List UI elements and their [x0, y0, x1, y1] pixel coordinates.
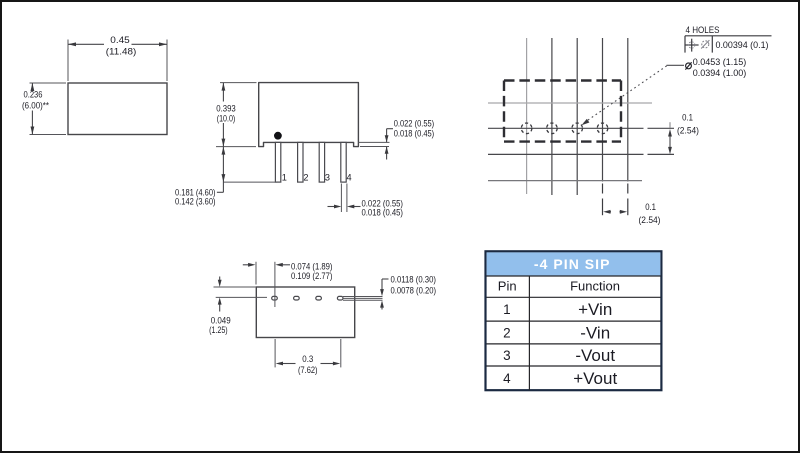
grid dark vertical lines	[552, 38, 628, 195]
table header text -4 PIN SIP	[534, 256, 611, 272]
row 4	[503, 369, 617, 388]
dim text 0.0118 / 0.0078	[391, 275, 437, 296]
row 3	[503, 346, 615, 365]
svg-text:0.1: 0.1	[645, 202, 656, 212]
svg-text:0.049: 0.049	[211, 316, 231, 326]
tolerance value text	[716, 39, 769, 50]
svg-text:0.3: 0.3	[302, 354, 313, 364]
4 HOLES label	[686, 24, 720, 35]
dimension pin width arrows	[328, 206, 361, 208]
dim text 0.074 / 0.109	[291, 261, 333, 281]
pin 1 cross-section	[272, 296, 278, 300]
table grid lines	[487, 276, 661, 390]
arrowheads standoff dim	[385, 135, 389, 154]
dimension line 0.45	[68, 43, 167, 45]
position symbol	[685, 39, 699, 52]
pin 4 cross-section	[337, 296, 343, 300]
dim text 0.45 (11.48)	[106, 35, 137, 57]
pin 2 cross-section	[294, 296, 300, 300]
svg-text:0.1: 0.1	[682, 113, 693, 123]
svg-text:(1.25): (1.25)	[209, 325, 228, 335]
row pitch dimension right 0.1 (2.54)	[669, 122, 671, 147]
table outer fill	[486, 251, 662, 390]
svg-text:4: 4	[503, 371, 511, 386]
pin thickness extension lines right	[343, 297, 383, 301]
front view body outline with standoff tabs	[259, 83, 359, 147]
svg-text:(6.00)**: (6.00)**	[22, 101, 49, 111]
arrowheads body height dim	[222, 83, 226, 183]
extension lines for 0.45 width dim	[68, 40, 167, 82]
svg-text:2: 2	[503, 325, 511, 340]
svg-text:1: 1	[282, 173, 287, 183]
diameter symbol (dashed)	[701, 40, 709, 48]
pin number labels	[282, 173, 352, 183]
table header band	[487, 252, 661, 275]
svg-text:+Vout: +Vout	[573, 369, 617, 388]
extension lines standoff right	[359, 142, 390, 146]
dim text 0.049 (1.25)	[209, 316, 231, 336]
bottom view body outline	[256, 287, 354, 338]
svg-text:-4 PIN SIP: -4 PIN SIP	[534, 256, 611, 272]
dashed lower extensions of hole-pitch lines	[603, 184, 628, 216]
svg-text:(7.62): (7.62)	[298, 365, 318, 375]
pin 2 lead	[298, 142, 303, 182]
svg-text:2: 2	[303, 173, 308, 183]
hole 1	[521, 123, 532, 134]
svg-text:0.074 (1.89): 0.074 (1.89)	[291, 261, 333, 271]
svg-text:0.236: 0.236	[24, 90, 43, 100]
pin 3 cross-section	[316, 296, 322, 300]
svg-text:0.022 (0.55): 0.022 (0.55)	[394, 119, 435, 129]
svg-text:0.142 (3.60): 0.142 (3.60)	[175, 197, 216, 207]
extension lines pin span	[275, 339, 341, 367]
svg-text:-Vin: -Vin	[580, 324, 610, 343]
pin offset dimension arrows	[243, 264, 290, 266]
pin 3 lead	[319, 142, 324, 182]
svg-text:3: 3	[325, 173, 330, 183]
svg-text:0.393: 0.393	[216, 104, 236, 114]
pin span dimension 0.3	[283, 363, 333, 365]
dim text 0.236 (6.00)**	[22, 90, 49, 111]
hole 3	[572, 123, 583, 134]
svg-text:0.018 (0.45): 0.018 (0.45)	[394, 128, 435, 138]
pin 4 lead	[341, 142, 346, 182]
svg-text:(2.54): (2.54)	[639, 215, 661, 225]
svg-text:0.0118 (0.30): 0.0118 (0.30)	[391, 275, 437, 285]
dim text pin width	[362, 198, 404, 217]
grid light vertical line	[526, 38, 528, 194]
side view body outline	[68, 83, 167, 135]
grid horizontal lines	[488, 103, 674, 181]
svg-text:Pin: Pin	[498, 278, 517, 293]
dim text 0.3 (7.62)	[298, 354, 318, 375]
svg-text:0.0453 (1.15): 0.0453 (1.15)	[693, 56, 747, 67]
svg-text:3: 3	[503, 348, 511, 363]
pin inset dimension vertical	[219, 277, 221, 312]
hole 2	[547, 123, 558, 134]
svg-text:4 HOLES: 4 HOLES	[686, 24, 720, 35]
dim text 0.393 (10.0)	[216, 104, 236, 124]
svg-text:(11.48): (11.48)	[106, 47, 137, 57]
svg-text:0.0394 (1.00): 0.0394 (1.00)	[693, 67, 747, 78]
hole diameter callout	[685, 62, 691, 69]
dimension line 0.393 / 0.181 vertical	[217, 83, 224, 193]
svg-text:(10.0): (10.0)	[217, 114, 236, 124]
leader dotted line to hole callout	[582, 65, 685, 125]
dimension standoff height	[387, 129, 393, 160]
extension lines left of front view	[216, 83, 277, 183]
extension lines pin offset dim	[256, 262, 275, 307]
svg-text:0.0078 (0.20): 0.0078 (0.20)	[391, 286, 437, 296]
svg-text:0.109 (2.77): 0.109 (2.77)	[291, 271, 333, 281]
svg-text:0.018 (0.45): 0.018 (0.45)	[362, 208, 404, 218]
column headers	[498, 278, 620, 293]
svg-text:4: 4	[347, 173, 352, 183]
svg-text:0.00394 (0.1): 0.00394 (0.1)	[716, 39, 769, 50]
arrowheads 0.236 dim	[31, 83, 35, 135]
dimension line 0.236	[31, 83, 33, 135]
extension lines left of bottom view	[214, 287, 268, 297]
svg-text:+Vin: +Vin	[578, 300, 612, 319]
feature control frame	[685, 36, 772, 53]
dim text 0.022 0.018 standoff	[394, 119, 435, 139]
extension lines for 0.236 height dim	[30, 83, 67, 135]
svg-text:-Vout: -Vout	[575, 346, 615, 365]
pin 1 polarity dot	[274, 132, 282, 140]
hole 4	[597, 123, 608, 134]
svg-text:Function: Function	[570, 278, 620, 293]
extension lines pin width	[341, 184, 347, 213]
row 1	[503, 300, 612, 319]
svg-text:0.45: 0.45	[110, 35, 130, 45]
column pitch dimension bottom 0.1 (2.54)	[606, 211, 625, 213]
arrowheads 0.45 dim	[68, 42, 167, 46]
row 2	[503, 324, 610, 343]
dim text 0.181 / 0.142 pin length	[175, 187, 216, 206]
svg-text:(2.54): (2.54)	[677, 126, 699, 136]
pin 1 lead	[275, 142, 280, 182]
svg-text:1: 1	[503, 302, 511, 317]
pin thickness dimension	[382, 279, 389, 310]
dashed module outline on grid	[504, 81, 621, 142]
